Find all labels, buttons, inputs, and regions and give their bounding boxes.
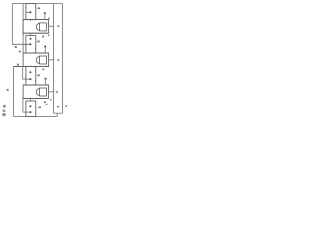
wire feed to cell 3 tap: [23, 78, 30, 80]
label bottom right dash: [57, 106, 59, 107]
label holder1 corner: [48, 18, 50, 19]
wire left bus lower: [13, 67, 15, 117]
cylinder cell in H3: [36, 88, 39, 95]
label right out2: [57, 59, 59, 60]
label 2b unit2: [37, 41, 40, 43]
holder H2: [23, 53, 48, 66]
label 4 left: [17, 64, 19, 66]
label a unit3: [37, 75, 40, 77]
label right out1: [57, 26, 59, 27]
wire shelf edge H1 bottom: [23, 32, 48, 34]
box U1 (cell unit 1): [26, 4, 36, 20]
label right out3: [56, 91, 58, 92]
wire holder1 output: [49, 25, 54, 27]
wire stub holder3 to box4: [29, 98, 31, 101]
wire right bus inner: [53, 4, 55, 114]
wire feed to cell 4 vertical: [22, 98, 24, 112]
label left of bus: [7, 89, 9, 91]
wire right bus outer: [62, 4, 64, 114]
wire shelf edge H2 top: [23, 52, 48, 54]
pointer blob holder3: [45, 78, 47, 80]
caption FIG dot: [3, 109, 6, 112]
box U2 (cell unit 2): [26, 36, 36, 53]
wire bottom jog: [56, 113, 58, 116]
wire shelf edge H1 top: [23, 19, 48, 21]
wire feed to cell 4 tap: [23, 111, 30, 113]
label 2a: [38, 7, 41, 9]
wire top bus: [12, 3, 62, 5]
label unit4 c: [50, 99, 52, 100]
wire holder3 output: [49, 91, 54, 93]
wire shelf edge H3 bottom: [23, 97, 48, 99]
label unit4 d: [46, 104, 47, 105]
wire shelf edge H2 bottom: [14, 65, 49, 67]
label 2 left: [15, 46, 17, 48]
wire feed to cell 1 tap: [26, 11, 30, 13]
pointer blob holder1: [44, 12, 46, 14]
node dot box1: [29, 11, 31, 13]
wire feed to cell 3 vertical: [22, 67, 24, 80]
box U3 (cell unit 3): [26, 66, 36, 85]
label below holder1: [48, 35, 50, 36]
wire feed to cell 3 horizontal: [14, 66, 23, 68]
node dot box2 upper: [30, 38, 32, 40]
holder H1: [23, 20, 48, 34]
node dot box2 lower: [29, 43, 31, 45]
holder H3: [23, 85, 48, 98]
figure caption FIG. rotated: [2, 105, 6, 116]
wire shelf edge H3 top: [23, 84, 48, 86]
cylinder cell in H2: [36, 56, 39, 63]
wire stub box1 into holder1: [29, 20, 31, 22]
cylinder cell in H1: [36, 23, 39, 30]
label unit4 a: [39, 106, 41, 108]
leader line holder2: [44, 47, 46, 53]
wire stub box1 to box2: [29, 33, 31, 35]
wire bottom join: [54, 112, 63, 114]
node dot box4 upper: [29, 105, 31, 107]
node dot box4 lower: [29, 111, 31, 113]
wire feed to cell 2 tap: [12, 43, 29, 45]
leader line holder3: [45, 79, 47, 85]
label 5 unit3: [42, 69, 44, 71]
caption FIG digit: [3, 105, 6, 108]
label 5 unit2: [42, 36, 44, 38]
label bottom right blob: [65, 105, 67, 107]
node dot box3 upper: [29, 71, 31, 73]
wire left inner bus: [22, 4, 24, 53]
wire holder2 output: [49, 59, 54, 61]
label unit4 b: [44, 102, 46, 104]
pointer blob holder2: [44, 46, 46, 48]
label 6 left: [19, 51, 21, 53]
leader line holder1: [44, 14, 46, 20]
box U4 (cell unit 4): [26, 101, 36, 117]
caption FIG letters: [2, 113, 5, 116]
wire left bus upper: [11, 4, 13, 45]
node dot box3 lower: [29, 78, 31, 80]
wire bottom bus: [14, 116, 58, 118]
